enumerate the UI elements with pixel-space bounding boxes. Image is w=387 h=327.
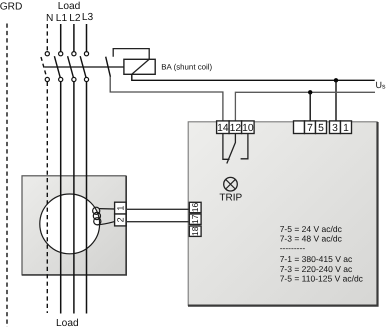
svg-text:BA (shunt coil): BA (shunt coil): [161, 62, 212, 71]
svg-text:3: 3: [332, 123, 338, 134]
svg-text:7-1 = 380-415 V ac: 7-1 = 380-415 V ac: [280, 254, 353, 264]
svg-text:L1: L1: [56, 13, 68, 24]
svg-text:5: 5: [318, 123, 324, 134]
svg-text:12: 12: [230, 123, 242, 134]
svg-text:7-3 = 48 V ac/dc: 7-3 = 48 V ac/dc: [280, 233, 343, 243]
svg-text:7-3 = 220-240 V ac: 7-3 = 220-240 V ac: [280, 264, 353, 274]
svg-text:7-5 = 110-125 V ac/dc: 7-5 = 110-125 V ac/dc: [280, 274, 364, 284]
svg-text:7-5 = 24 V ac/dc: 7-5 = 24 V ac/dc: [280, 224, 343, 234]
svg-text:N: N: [46, 13, 53, 24]
svg-text:16: 16: [190, 203, 200, 213]
svg-text:17: 17: [190, 214, 200, 224]
svg-text:10: 10: [242, 123, 254, 134]
svg-text:GRD: GRD: [0, 1, 22, 12]
svg-text:7: 7: [307, 123, 313, 134]
svg-text:Load: Load: [58, 1, 81, 12]
svg-text:TRIP: TRIP: [219, 193, 242, 204]
svg-text:L3: L3: [82, 12, 94, 23]
svg-text:18: 18: [190, 226, 200, 236]
svg-text:Load: Load: [56, 318, 79, 327]
svg-text:---------: ---------: [280, 243, 306, 253]
svg-text:2: 2: [115, 217, 125, 222]
svg-text:1: 1: [343, 123, 349, 134]
svg-text:14: 14: [217, 123, 229, 134]
svg-text:1: 1: [115, 206, 125, 211]
svg-text:L2: L2: [69, 13, 81, 24]
